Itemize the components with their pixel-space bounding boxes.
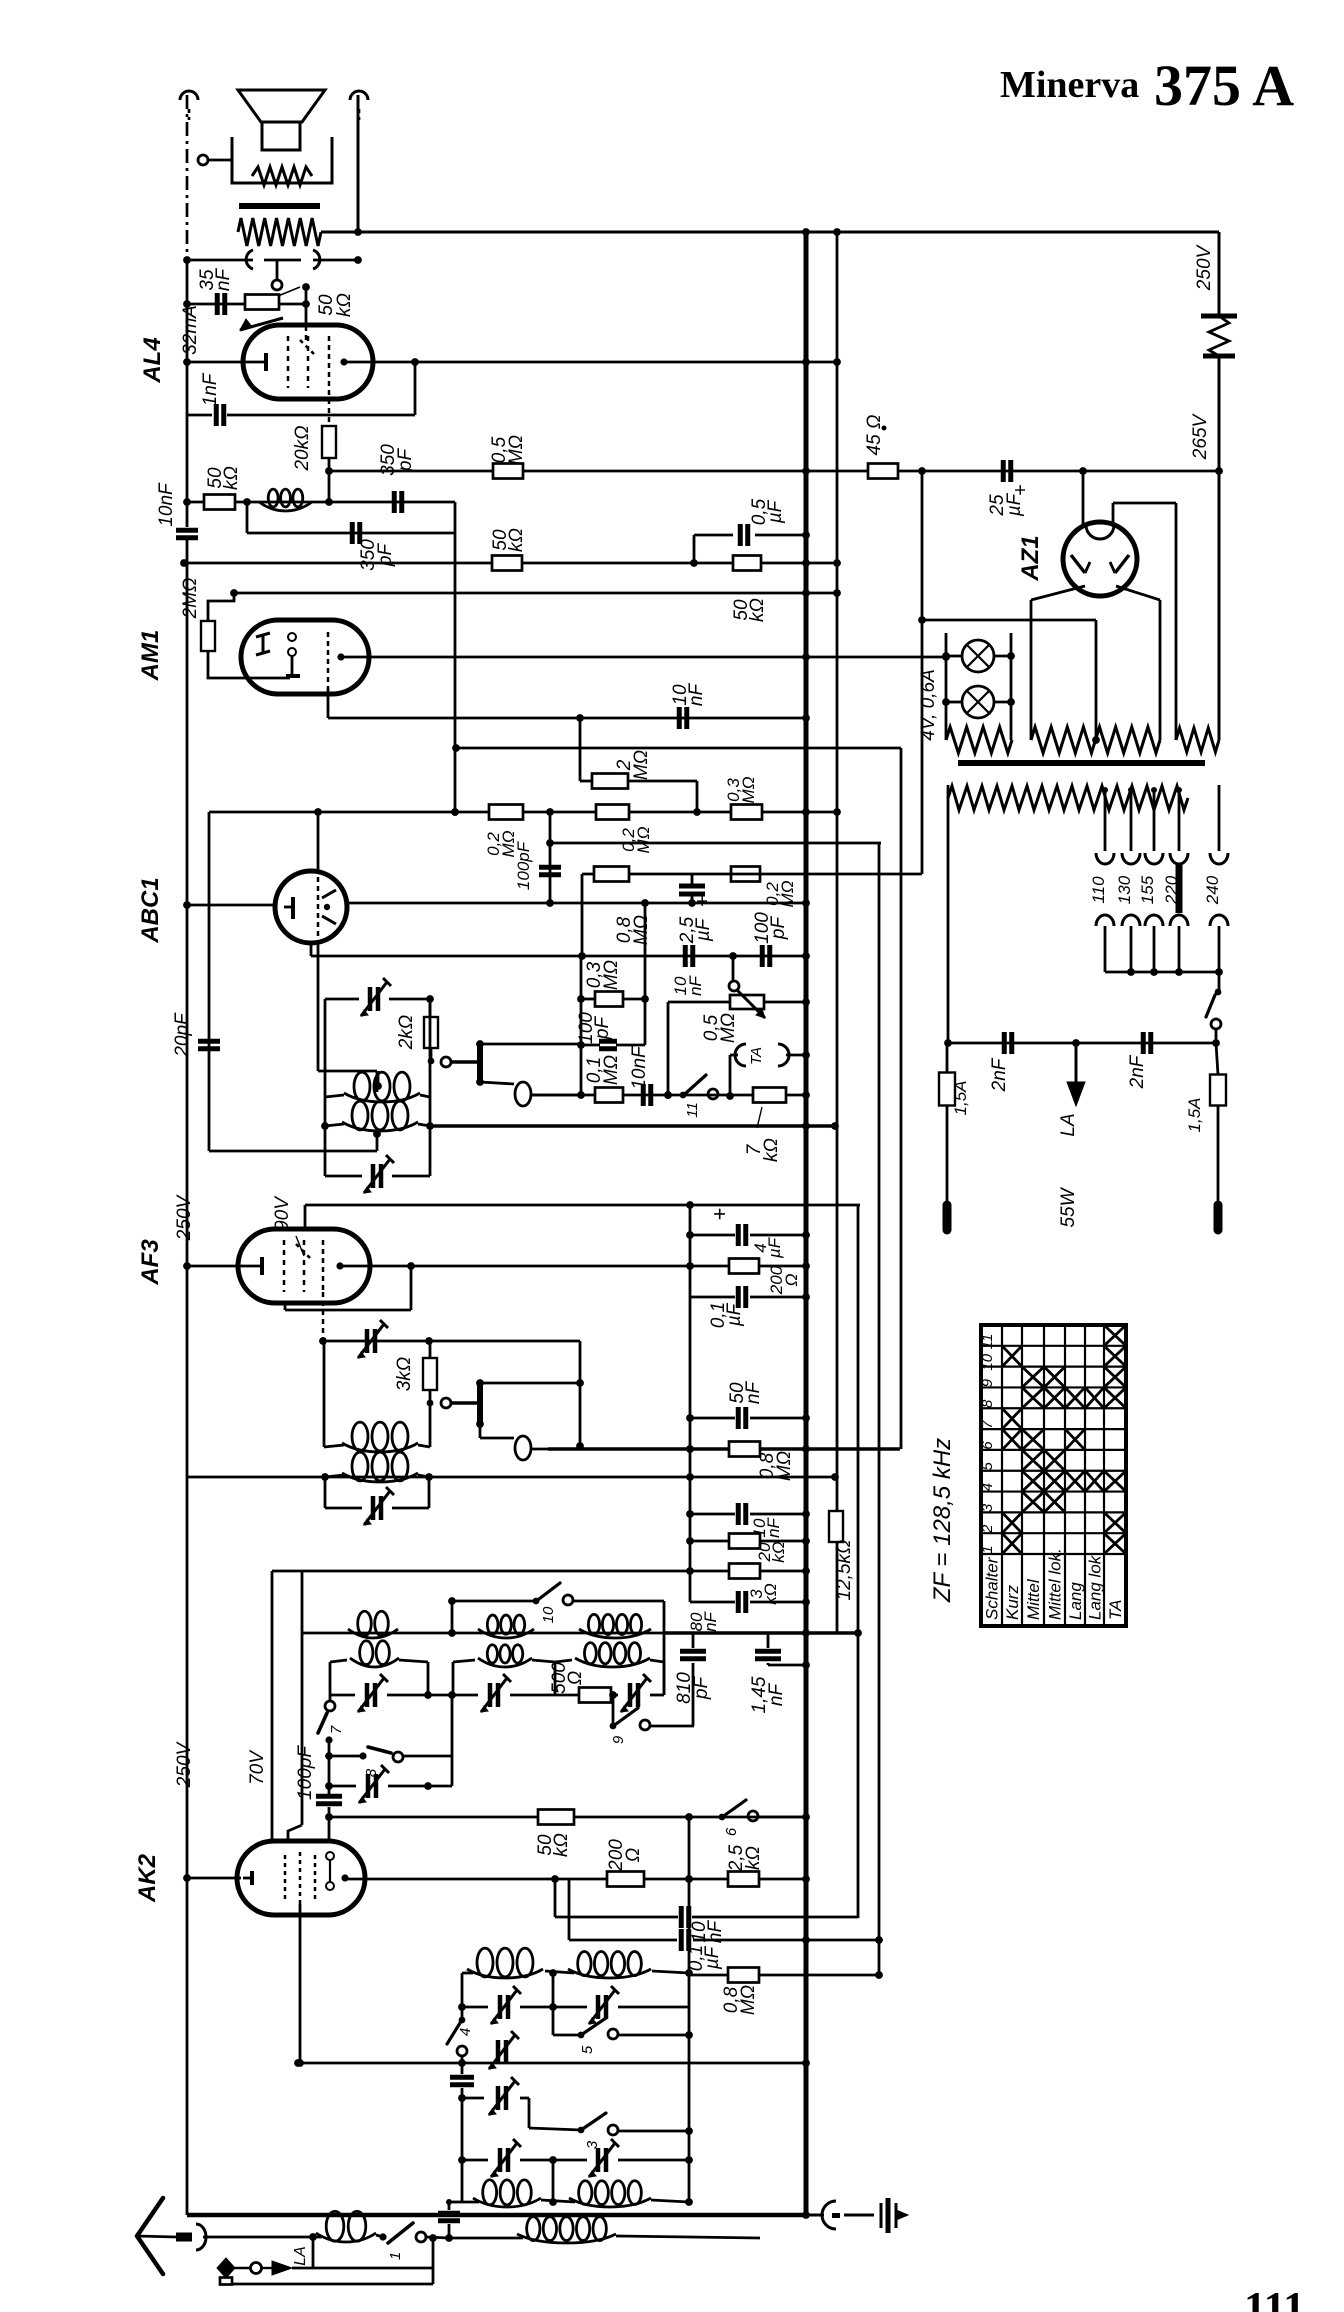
resistor 7kOhm	[744, 1088, 786, 1162]
coupling loop osc	[480, 1082, 581, 1106]
variable cap osc1	[325, 978, 434, 1016]
wire bus x806 thick	[804, 232, 809, 2215]
wire x209 osc	[208, 812, 211, 1151]
resistor 0.8MOhm	[594, 867, 652, 946]
svg-text:AZ1: AZ1	[1017, 535, 1044, 581]
label AF3	[137, 1239, 164, 1286]
svg-text:AF3: AF3	[137, 1239, 164, 1286]
svg-text:50kΩ: 50kΩ	[316, 293, 355, 317]
svg-text:20kΩ: 20kΩ	[292, 425, 313, 471]
wire x430 osc	[426, 999, 434, 1176]
wire bar top to 100pF	[480, 1043, 581, 1046]
LA arrow	[1058, 1043, 1085, 1137]
wire rail y533	[247, 502, 455, 533]
heater winding HV	[1031, 727, 1160, 753]
wire AK2 anode rail y1879	[345, 1875, 810, 1883]
wire bar AF3 top	[480, 1382, 580, 1385]
svg-text:32mA: 32mA	[180, 305, 201, 355]
svg-text:2: 2	[979, 1524, 996, 1534]
resistor 2MOhm b	[580, 718, 701, 816]
trimmer row 2	[453, 1674, 555, 1712]
label 55W	[1058, 1186, 1079, 1227]
svg-text:AL4: AL4	[139, 337, 166, 383]
wire x690 column	[686, 1205, 694, 1602]
svg-text:9: 9	[979, 1378, 996, 1387]
trimmer row B	[458, 1986, 689, 2024]
wire x186 vertical mid	[186, 262, 189, 527]
svg-text:Kurz: Kurz	[1003, 1585, 1022, 1620]
capacitor 50nF AF3	[690, 1381, 810, 1429]
switch 10	[448, 1583, 664, 1695]
band coil 3	[579, 1614, 651, 1638]
capacitor 350pF a	[378, 444, 416, 513]
ground symbol	[881, 2198, 908, 2233]
capacitor 80nF	[687, 1591, 810, 1632]
capacitor 1nF row	[187, 372, 415, 426]
wire 265V rail	[1218, 471, 1221, 740]
svg-text:50kΩ: 50kΩ	[205, 466, 242, 490]
svg-text:10nF: 10nF	[629, 1045, 650, 1090]
svg-text:0,1µF: 0,1µF	[686, 1945, 723, 1971]
svg-text:50kΩ: 50kΩ	[731, 598, 768, 622]
TA jack	[726, 1044, 810, 1100]
oscillator coil secondary rail y1126 thick	[430, 1122, 839, 1130]
wire x553 bottom	[552, 2160, 555, 2202]
resistor 0.3MOhm	[581, 960, 649, 1007]
wire x329 to rail471	[325, 458, 333, 506]
primary winding	[948, 786, 1188, 810]
wire column x922	[918, 471, 926, 874]
wire AK2 left	[183, 1874, 241, 1882]
svg-text:375 A: 375 A	[1154, 53, 1294, 118]
resistor 0.8MOhm b	[729, 1442, 795, 1482]
resistor 200 Ohm AK2	[606, 1839, 644, 1887]
antenna symbol	[137, 2198, 313, 2274]
svg-text:1,5A: 1,5A	[951, 1081, 970, 1116]
wire speaker box left	[231, 137, 234, 150]
tube AL4 envelope	[243, 325, 373, 399]
capacitor 100pF a	[514, 840, 561, 890]
switch 2 osc	[428, 1048, 478, 1067]
IF coil AF3 primary	[324, 1341, 430, 1452]
capacitor 350pF b	[352, 522, 396, 571]
trimmer 8	[325, 1752, 452, 1803]
svg-text:5: 5	[979, 1461, 996, 1470]
variable cap osc2	[325, 1126, 430, 1193]
capacitor 10nF AK2	[555, 1906, 858, 1943]
svg-text:LA: LA	[292, 2246, 309, 2266]
label 4V 0.6A	[918, 669, 939, 740]
svg-text:70V: 70V	[247, 1749, 268, 1785]
svg-text:2MΩ: 2MΩ	[180, 578, 201, 620]
band coil 2	[478, 1615, 534, 1638]
oscillator coil primary	[325, 1071, 430, 1102]
wire AK2 grid drop	[296, 1904, 304, 2067]
svg-text:0,8MΩ: 0,8MΩ	[757, 1451, 795, 1481]
resistor 50kOhm c	[731, 556, 768, 622]
dial lamp 1	[942, 640, 1015, 672]
tube AZ1 envelope	[1063, 522, 1137, 596]
speaker connector arcs	[246, 250, 320, 269]
wire AM1 anode rail y657	[341, 653, 950, 661]
tube AK2 envelope	[237, 1841, 365, 1915]
speaker field coil box	[232, 137, 332, 185]
wire column x879	[875, 843, 883, 1975]
ground rail y2215 thick	[187, 2211, 810, 2219]
capacitor 35nF	[197, 268, 234, 315]
svg-text:+: +	[692, 895, 714, 907]
svg-text:10nF: 10nF	[670, 683, 707, 707]
wire column x858	[854, 1205, 862, 1918]
svg-text:35nF: 35nF	[197, 268, 234, 292]
svg-text:10nF: 10nF	[156, 482, 177, 527]
transformer core	[958, 760, 1205, 766]
resistor 45 Ohm	[864, 415, 898, 479]
capacitor 1.45nF	[749, 1633, 810, 1713]
resistor 0.2MOhm b	[596, 805, 653, 854]
label 250V AF3	[174, 1193, 195, 1241]
capacitor 25uF a	[987, 460, 1032, 517]
antenna long coil	[449, 2217, 760, 2243]
capacitor 100pF b	[752, 912, 789, 967]
wire rail y471	[329, 467, 1223, 475]
wire AL4 anode rail y361	[344, 358, 841, 366]
svg-text:2nF: 2nF	[1127, 1054, 1148, 1089]
switch 3	[529, 2113, 689, 2149]
svg-text:8: 8	[979, 1399, 996, 1408]
svg-text:2nF: 2nF	[989, 1057, 1010, 1092]
capacitor 10nF b	[670, 683, 707, 729]
capacitor 0.1uF AF3	[690, 1286, 810, 1328]
svg-text:0,3MΩ: 0,3MΩ	[724, 776, 758, 803]
output transformer primary zigzag	[238, 218, 321, 246]
resistor 2MOhm	[180, 578, 290, 678]
wire speaker to plate rail	[357, 95, 360, 232]
svg-text:0,2MΩ: 0,2MΩ	[484, 830, 518, 857]
wire rail y1126	[209, 999, 377, 1151]
svg-text:TA: TA	[748, 1047, 765, 1065]
coupling loop AF3	[480, 1424, 548, 1460]
wire rail y593	[230, 589, 841, 597]
wire rail y956	[311, 941, 810, 960]
resistor 20kOhm	[292, 425, 336, 471]
wire rail y812	[209, 808, 841, 816]
svg-text:20pF: 20pF	[172, 1012, 193, 1058]
wire AF3 left	[183, 1262, 243, 1270]
switch table	[979, 1325, 1126, 1626]
resistor 0.8MOhm ant	[689, 1968, 883, 2016]
switch 5	[553, 2018, 689, 2054]
wire x456 down	[451, 533, 459, 816]
svg-text:0,5µF: 0,5µF	[749, 498, 786, 525]
wire AF3 screen loop	[285, 1266, 411, 1310]
svg-text:1nF: 1nF	[200, 372, 221, 406]
svg-text:0,1µF: 0,1µF	[708, 1302, 745, 1328]
antenna input coil row H	[313, 2211, 453, 2260]
capacitor 2nF b	[1127, 1032, 1151, 1089]
contact bar AF3	[476, 1379, 484, 1428]
resistor 2.5kOhm	[726, 1844, 764, 1886]
wire rail y563	[180, 559, 841, 567]
svg-text:250V: 250V	[174, 1740, 195, 1788]
svg-text:6: 6	[979, 1441, 996, 1450]
capacitor 20pF	[172, 1012, 220, 1058]
switch 7	[318, 1695, 345, 1744]
wire rail y843	[550, 842, 881, 845]
wire x272 70V	[247, 1571, 272, 1843]
wire x462 bottom	[461, 2098, 464, 2202]
trimmer row F	[458, 2139, 689, 2177]
resistor 0.2MOhm a	[484, 805, 523, 858]
wire rail y2063	[294, 2059, 810, 2067]
wire column x901	[900, 748, 903, 1449]
wire rail y1341	[323, 1337, 584, 1450]
label 32mA	[180, 305, 201, 355]
resistor 200 Ohm AF3	[729, 1259, 801, 1296]
wire AL4 cathode left	[183, 358, 246, 366]
label ABC1	[137, 877, 164, 943]
svg-text:LA: LA	[1058, 1113, 1079, 1136]
heater winding left	[946, 727, 1012, 753]
svg-text:111: 111	[1244, 2283, 1305, 2312]
svg-text:2kΩ: 2kΩ	[396, 1015, 417, 1051]
mains pin left	[943, 1205, 952, 1230]
page number 111	[1244, 2283, 1305, 2312]
band coil 1	[348, 1611, 398, 1638]
label AZ1	[1017, 535, 1044, 581]
svg-text:100pF: 100pF	[514, 840, 533, 890]
capacitor 10nF c	[671, 945, 705, 996]
svg-text:100pF: 100pF	[295, 1745, 316, 1800]
ground jack	[806, 2201, 874, 2229]
svg-text:250V: 250V	[1194, 243, 1215, 291]
label 50kOhm pot	[316, 293, 355, 317]
svg-text:+: +	[1010, 484, 1032, 496]
variable cap AF3 b	[325, 1477, 429, 1525]
svg-text:5: 5	[579, 2045, 596, 2054]
potentiometer 0.5MOhm	[729, 956, 810, 1018]
svg-text:7: 7	[328, 1725, 345, 1734]
wire AF3 anode rail y1266	[338, 1262, 810, 1270]
tube AK2 electrodes	[243, 1852, 349, 1904]
tap contacts bottom	[1096, 915, 1228, 926]
svg-text:Mittel: Mittel	[1024, 1578, 1043, 1620]
coupling cap ant	[438, 2199, 462, 2238]
svg-text:Schalter: Schalter	[983, 1556, 1002, 1620]
wire x462 top	[461, 1973, 464, 2020]
variable cap AF3 a	[358, 1320, 388, 1358]
resistor 50kOhm a	[204, 466, 242, 509]
switch 6	[719, 1800, 806, 1836]
trimmer row 1	[330, 1674, 456, 1712]
title 375 A	[1154, 53, 1294, 118]
wire ABC1 top x318	[317, 812, 320, 873]
wire rail y502	[183, 498, 455, 506]
tube AM1 envelope	[241, 620, 369, 694]
svg-text:4: 4	[457, 2028, 474, 2036]
label 0.5MOhm	[701, 1013, 739, 1043]
wire x922 - heater tap	[924, 620, 1100, 744]
svg-text:50nF: 50nF	[727, 1381, 764, 1405]
wire AM1 bottom rail y718	[328, 688, 810, 722]
wire rail y1572	[272, 1567, 810, 1575]
band coil 1b	[330, 1641, 428, 1695]
antenna coil row G	[462, 2180, 689, 2207]
resistor 2kOhm	[396, 999, 438, 1050]
wire x553 ant	[552, 1973, 555, 2035]
trimmer mid a	[489, 2031, 519, 2069]
capacitor 100pF c	[576, 899, 649, 1049]
resistor 0.2MOhm c	[731, 867, 797, 908]
wire AF3 grid cap	[305, 1201, 860, 1229]
fuse 1.5A left	[939, 1043, 970, 1205]
resistor 12.5kOhm	[829, 1511, 855, 1600]
wire lamp right stub	[1010, 633, 1013, 740]
svg-text:250V: 250V	[174, 1193, 195, 1241]
wire plate supply rail y232	[321, 228, 1219, 236]
svg-text:3: 3	[584, 2140, 601, 2149]
resistor 20kOhm b	[690, 1534, 810, 1563]
wire AZ1 anode left	[1031, 586, 1085, 740]
svg-text:2,5kΩ: 2,5kΩ	[726, 1844, 764, 1872]
wire AZ1 anode right	[1116, 586, 1160, 740]
wire rail y1449 thick	[548, 1445, 900, 1453]
antenna earth plug	[217, 2258, 313, 2285]
oscillator coil secondary	[325, 1101, 430, 1151]
svg-text:10: 10	[979, 1353, 996, 1370]
svg-text:265V: 265V	[1190, 412, 1211, 460]
svg-text:+: +	[707, 1208, 732, 1221]
coil tone choke	[259, 489, 312, 511]
svg-text:ABC1: ABC1	[137, 877, 164, 943]
speaker cone	[238, 90, 325, 150]
svg-text:0,5MΩ: 0,5MΩ	[489, 435, 527, 465]
tube AF3 electrodes	[242, 1240, 344, 1292]
IF coil AF3 secondary rail y1477	[187, 1473, 433, 1481]
wire pot to grid	[278, 283, 310, 326]
svg-text:0,5MΩ: 0,5MΩ	[701, 1013, 739, 1043]
primary taps	[1102, 787, 1182, 851]
svg-text:AM1: AM1	[137, 630, 164, 682]
resistor 50kOhm b	[490, 528, 527, 570]
wire riser x415	[414, 362, 417, 415]
capacitor 810pF	[674, 1633, 712, 1726]
label ZF frequency	[929, 1438, 956, 1603]
svg-text:AK2: AK2	[134, 1853, 161, 1903]
svg-text:6: 6	[723, 1827, 740, 1836]
label AK2	[134, 1853, 161, 1903]
svg-text:90V: 90V	[272, 1195, 293, 1231]
label LA coil	[292, 2246, 309, 2266]
svg-text:1: 1	[979, 1545, 996, 1553]
tap contacts top	[1096, 853, 1228, 864]
capacitor 10nF d	[629, 1045, 651, 1106]
svg-text:55W: 55W	[1058, 1186, 1079, 1227]
resistor 3kOhm AF3	[394, 1341, 437, 1391]
svg-text:0,2MΩ: 0,2MΩ	[619, 826, 653, 853]
svg-text:50kΩ: 50kΩ	[490, 528, 527, 552]
svg-text:45 Ω: 45 Ω	[864, 415, 885, 456]
capacitor fixed ant	[450, 2056, 474, 2102]
wire x186 vertical long	[186, 540, 189, 2215]
tube AZ1 electrodes	[1071, 525, 1129, 573]
antenna coil row A	[462, 1948, 689, 1978]
IF coil AF3 secondary	[325, 1452, 429, 1482]
wire rail y874	[578, 874, 922, 960]
label AL4	[139, 337, 166, 383]
wire primary left	[944, 785, 952, 1047]
wire ABC1 right y903	[345, 899, 810, 907]
wire AL4 screen drop x329	[328, 390, 331, 426]
resistor 3kOhm top	[729, 1564, 780, 1605]
wire ABC1 bottom x318	[318, 940, 377, 1092]
wire primary right	[1218, 785, 1221, 851]
wire pot left drop	[664, 1002, 730, 1099]
heater winding right	[1176, 728, 1219, 752]
mains rail y1043	[948, 1039, 1216, 1047]
tube ABC1 envelope	[275, 871, 347, 943]
tap drops	[1105, 926, 1219, 972]
capacitor 0.5uF	[694, 498, 810, 563]
wire ABC1 grid left	[183, 901, 277, 909]
svg-text:3kΩ: 3kΩ	[394, 1357, 415, 1392]
wire x302 drop	[288, 1571, 302, 1843]
capacitor 2nF a	[989, 1032, 1012, 1092]
svg-text:240: 240	[1203, 875, 1222, 905]
switch 8	[329, 1695, 452, 1786]
trimmer 3	[609, 1674, 664, 1712]
tap labels	[1089, 875, 1222, 905]
fuse 1.5A right	[1185, 1043, 1226, 1205]
wire rail y1817	[329, 1813, 810, 1821]
wire speaker left drop	[198, 155, 232, 165]
svg-text:Mittel lok.: Mittel lok.	[1046, 1548, 1065, 1620]
svg-text:0,8MΩ: 0,8MΩ	[721, 1985, 759, 2015]
svg-text:TA: TA	[1106, 1600, 1125, 1620]
svg-text:0,1MΩ: 0,1MΩ	[584, 1055, 622, 1085]
svg-text:Lang lok: Lang lok	[1086, 1554, 1105, 1620]
band coil 2b	[453, 1645, 555, 1695]
wire AZ1 filament top	[1082, 471, 1085, 525]
label 250V right	[1194, 243, 1215, 291]
label 265V	[1190, 412, 1211, 460]
speaker jack arc left	[180, 91, 198, 120]
svg-text:1: 1	[387, 2252, 404, 2260]
capacitor 10nF e	[690, 1503, 810, 1538]
svg-text:3: 3	[979, 1503, 996, 1512]
svg-text:9: 9	[610, 1735, 627, 1744]
switch AF3	[427, 1390, 478, 1408]
tube AL4 electrodes	[246, 326, 348, 390]
svg-text:0,3MΩ: 0,3MΩ	[584, 960, 622, 990]
trimmer row D	[462, 2077, 529, 2128]
wire column x837	[836, 232, 839, 1633]
resistor 0.5MOhm	[489, 435, 527, 479]
svg-text:20kΩ: 20kΩ	[755, 1541, 788, 1563]
label 250V AK2	[174, 1740, 195, 1788]
label AM1	[137, 630, 164, 682]
svg-text:ZF = 128,5 kHz: ZF = 128,5 kHz	[929, 1438, 956, 1603]
wire volume pot row y304	[183, 300, 246, 308]
capacitor 100pF d	[295, 1745, 342, 1843]
svg-text:110: 110	[1089, 876, 1108, 904]
svg-text:50kΩ: 50kΩ	[535, 1833, 572, 1857]
capacitor 2.5uF electrolytic	[677, 874, 714, 944]
wire ant loop	[226, 2233, 433, 2284]
svg-text:1,5A: 1,5A	[1185, 1098, 1204, 1133]
resistor 50kOhm AK2	[535, 1810, 574, 1857]
wire rail y748	[452, 744, 901, 752]
